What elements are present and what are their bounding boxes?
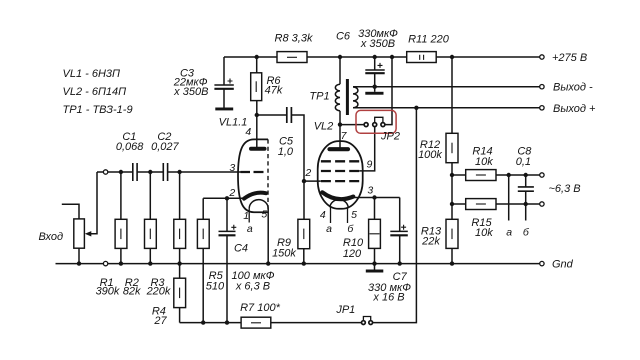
capacitor C8 <box>516 146 534 204</box>
jumper JP1 <box>335 304 372 325</box>
wire anode node to C5 <box>257 114 287 116</box>
node R2/rail <box>148 261 152 265</box>
svg-text:х 350В: х 350В <box>173 86 208 98</box>
connector pin (top) <box>103 170 107 174</box>
heater VL2 <box>320 200 357 235</box>
svg-text:10k: 10k <box>475 156 493 168</box>
svg-text:а: а <box>506 226 512 238</box>
legend text <box>63 68 133 116</box>
terminal Vyhod + <box>540 103 596 115</box>
node R3/R4/rail <box>177 261 181 265</box>
svg-text:120: 120 <box>343 248 362 260</box>
node R12/R14 <box>450 173 454 177</box>
ground (R10) <box>366 264 384 273</box>
svg-text:C4: C4 <box>234 243 248 255</box>
svg-text:а: а <box>326 223 332 235</box>
svg-text:JP1: JP1 <box>335 304 355 316</box>
resistor R1 <box>96 172 127 298</box>
svg-text:Выход -: Выход - <box>553 82 593 94</box>
svg-text:х 16 В: х 16 В <box>372 292 404 304</box>
node R10/rail <box>372 261 376 265</box>
svg-text:0,068: 0,068 <box>116 141 144 153</box>
grid VL1.1 (pin 3) <box>229 162 263 174</box>
wire feedback line <box>180 108 417 323</box>
grids VL2 <box>304 159 372 182</box>
svg-text:4: 4 <box>245 126 251 138</box>
jumper JP2 <box>356 110 400 142</box>
svg-text:0,027: 0,027 <box>151 141 179 153</box>
node C6/ground <box>373 85 377 89</box>
resistor R9 <box>272 219 310 263</box>
node rail/R6 <box>255 55 259 59</box>
node grid line/R1 <box>119 170 123 174</box>
wire VL1.1 pin5 to ground rail <box>267 209 269 264</box>
node C7/rail <box>398 261 402 265</box>
anode bar VL1.1 (pin 4) <box>245 126 264 149</box>
svg-text:1,0: 1,0 <box>278 146 294 158</box>
svg-text:~6,3 В: ~6,3 В <box>549 183 581 195</box>
svg-text:3: 3 <box>367 185 373 197</box>
node R12/R15 <box>450 202 454 206</box>
svg-text:VL1 - 6Н3П: VL1 - 6Н3П <box>63 68 121 80</box>
capacitor C6 <box>336 28 398 87</box>
svg-text:VL2 - 6П14П: VL2 - 6П14П <box>63 86 127 98</box>
svg-text:10k: 10k <box>475 227 493 239</box>
terminal ~6,3 V (bottom) <box>540 183 581 206</box>
svg-text:22k: 22k <box>421 235 440 247</box>
tube VL2 envelope <box>314 121 363 209</box>
wire output minus line <box>353 86 540 88</box>
wire heater stub a <box>506 175 512 238</box>
wire grid line (top input line) <box>97 171 241 173</box>
svg-text:1: 1 <box>243 210 249 222</box>
svg-text:9: 9 <box>366 159 372 171</box>
wire JP2 middle to screen grid pin 9 <box>359 127 374 171</box>
node C8 top <box>524 173 528 177</box>
node VL2 grid <box>302 179 306 183</box>
terminal Vyhod - <box>540 82 593 94</box>
wire screen riser from rail to JP2 right <box>385 57 392 125</box>
resistor R10 <box>343 198 381 264</box>
node R1/rail <box>119 261 123 265</box>
resistor R11 <box>407 34 450 63</box>
svg-text:100k: 100k <box>418 149 442 161</box>
svg-text:510: 510 <box>206 281 225 293</box>
node R9/rail <box>302 261 306 265</box>
tube VL1.1 envelope <box>219 117 268 213</box>
capacitor C1 <box>116 131 144 181</box>
svg-text:220k: 220k <box>146 286 171 298</box>
svg-text:2: 2 <box>304 167 311 179</box>
node rail/screen riser <box>390 55 394 59</box>
resistor R13 <box>421 219 458 263</box>
svg-text:Вход: Вход <box>39 231 64 243</box>
node cathode/R10 <box>372 195 376 199</box>
resistor R15 <box>452 199 540 240</box>
svg-text:27: 27 <box>153 315 167 327</box>
transformer TP1 secondary winding <box>353 87 358 108</box>
svg-text:Выход +: Выход + <box>553 103 596 115</box>
ground (C3) <box>215 108 233 111</box>
node pot/rail <box>77 261 81 265</box>
resistor R2 <box>123 172 156 298</box>
svg-text:+275 В: +275 В <box>552 52 587 64</box>
node rail/R12 <box>450 55 454 59</box>
node cathode/C4 <box>225 196 229 200</box>
svg-text:С6: С6 <box>336 30 351 42</box>
capacitor C4 <box>219 198 275 322</box>
svg-text:4: 4 <box>320 209 326 221</box>
wire VL2 cathode line <box>354 197 400 199</box>
svg-text:5: 5 <box>261 208 267 220</box>
terminal +275 B <box>540 52 587 64</box>
wire C5 to VL2 grid / R9 column <box>292 115 304 219</box>
svg-text:R8 3,3k: R8 3,3k <box>275 33 313 45</box>
svg-text:ТР1: ТР1 <box>309 90 329 102</box>
svg-text:150k: 150k <box>272 248 296 260</box>
resistor R8 <box>275 33 313 63</box>
terminal ~6,3 V (top) <box>540 173 544 177</box>
wire heater stub b <box>523 204 530 238</box>
wire output plus line <box>353 107 540 109</box>
node grid line/R3 <box>177 170 181 174</box>
svg-text:R11 220: R11 220 <box>408 34 450 46</box>
svg-text:х 350В: х 350В <box>360 38 395 50</box>
anode bar VL2 (pin 7) <box>330 130 349 149</box>
connector pin (bottom) <box>103 261 107 265</box>
svg-text:390k: 390k <box>96 286 120 298</box>
cathode VL1.1 (pin 2) <box>228 187 265 199</box>
wire ground rail <box>56 263 540 265</box>
transformer TP1 core <box>346 79 349 115</box>
node rail/C6 <box>373 55 377 59</box>
resistor R6 <box>251 57 283 101</box>
wire input lead <box>62 204 79 219</box>
capacitor C5 <box>278 107 294 158</box>
node C8 bottom <box>524 202 528 206</box>
resistor R4 <box>152 264 186 327</box>
node anode VL1/C5 <box>255 113 259 117</box>
wire +275V top rail <box>224 56 540 58</box>
svg-text:47k: 47k <box>265 85 283 97</box>
svg-text:82k: 82k <box>123 286 141 298</box>
svg-text:VL1.1: VL1.1 <box>219 117 248 129</box>
wire R6 to VL1 anode <box>256 101 258 148</box>
svg-text:а: а <box>247 223 253 235</box>
node anode VL2 / primary bottom <box>338 122 342 126</box>
node R5/feedback line <box>201 320 205 324</box>
capacitor C7 <box>368 198 411 304</box>
heater VL1.1 <box>243 200 268 236</box>
resistor R14 <box>452 146 540 181</box>
wire VL1 cathode line <box>203 197 246 199</box>
wire anode node to JP2 left <box>340 124 364 126</box>
resistor R5 <box>197 198 225 322</box>
node C4/feedback line <box>225 320 229 324</box>
svg-text:х 6,3 В: х 6,3 В <box>235 281 270 293</box>
node pin5/rail <box>266 261 270 265</box>
potentiometer (volume) <box>74 172 97 264</box>
terminal Gnd <box>540 258 574 270</box>
node R13/rail <box>450 261 454 265</box>
svg-text:5: 5 <box>351 209 357 221</box>
capacitor C3 <box>173 57 234 108</box>
svg-text:Gnd: Gnd <box>552 258 574 270</box>
node rail/TP1 primary <box>338 55 342 59</box>
node feedback tap <box>414 106 418 110</box>
capacitor C2 <box>151 131 179 181</box>
resistor R3 <box>146 172 186 298</box>
node grid line/R2 <box>148 170 152 174</box>
wire grid stub into VL2 <box>304 180 321 182</box>
transformer TP1 primary winding <box>309 57 340 148</box>
svg-text:VL2: VL2 <box>314 121 334 133</box>
cathode VL2 (pin 3) <box>322 185 373 200</box>
svg-text:ТР1 - ТВЗ-1-9: ТР1 - ТВЗ-1-9 <box>63 104 133 116</box>
ground (C6) <box>365 87 383 95</box>
resistor R12 <box>418 57 458 219</box>
node heater a <box>507 173 511 177</box>
svg-text:JP2: JP2 <box>380 131 400 143</box>
resistor R7 <box>240 302 280 328</box>
svg-text:2: 2 <box>228 187 235 199</box>
svg-text:0,1: 0,1 <box>516 156 531 168</box>
svg-text:R7 100*: R7 100* <box>240 302 280 314</box>
